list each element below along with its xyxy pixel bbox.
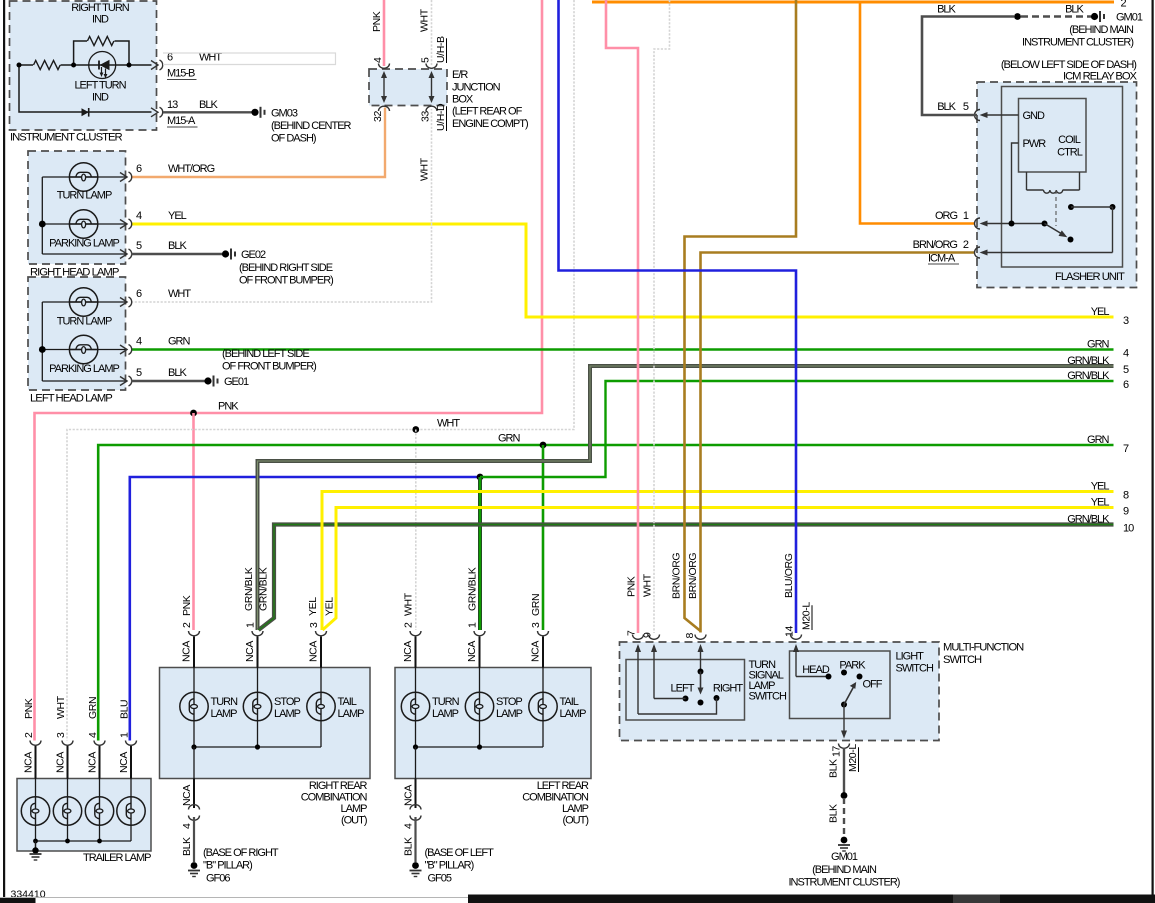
svg-text:GRN/BLK: GRN/BLK — [467, 567, 479, 611]
ICM relay box — [977, 82, 1137, 288]
svg-text:PARKING LAMP: PARKING LAMP — [49, 238, 119, 250]
svg-text:WHT/ORG: WHT/ORG — [168, 163, 215, 175]
left rear combination lamp box — [395, 668, 591, 779]
wire WHT into E/R pin 5 — [431, 0, 433, 66]
svg-text:4: 4 — [87, 732, 99, 738]
svg-text:TURN LAMP: TURN LAMP — [57, 190, 112, 202]
svg-text:5: 5 — [420, 57, 432, 63]
svg-text:GE02: GE02 — [241, 249, 266, 261]
svg-text:1: 1 — [963, 210, 969, 222]
svg-text:YEL: YEL — [324, 597, 336, 616]
svg-text:10: 10 — [1123, 522, 1134, 534]
svg-text:JUNCTION: JUNCTION — [452, 82, 501, 94]
wire ORG to flasher pin 1 — [860, 2, 974, 224]
E/R junction box — [369, 69, 447, 106]
svg-text:CTRL: CTRL — [1057, 147, 1083, 159]
svg-text:TURN: TURN — [211, 696, 239, 708]
svg-text:8: 8 — [684, 633, 696, 639]
flasher component box — [1019, 99, 1087, 173]
MFS pin 17 connector — [839, 744, 850, 749]
svg-text:(BEHIND RIGHT SIDE: (BEHIND RIGHT SIDE — [239, 262, 333, 274]
svg-text:(BASE OF RIGHT: (BASE OF RIGHT — [203, 847, 279, 859]
svg-text:GF06: GF06 — [206, 873, 230, 885]
bulb LHL turn lamp — [69, 288, 97, 316]
svg-text:GRN/BLK: GRN/BLK — [1067, 514, 1110, 526]
svg-text:GRN: GRN — [530, 594, 542, 616]
svg-text:WHT: WHT — [642, 573, 654, 597]
svg-text:INSTRUMENT CLUSTER): INSTRUMENT CLUSTER) — [1022, 37, 1133, 49]
svg-text:1: 1 — [467, 622, 479, 628]
svg-text:GRN: GRN — [87, 697, 99, 719]
svg-text:2: 2 — [181, 622, 193, 628]
trailer pin 3 connector — [62, 741, 73, 746]
svg-text:2: 2 — [403, 622, 415, 628]
relay actuation dashed line — [1055, 190, 1057, 226]
svg-text:GRN: GRN — [168, 336, 191, 348]
svg-text:GRN: GRN — [498, 433, 521, 445]
ground GM03 — [251, 109, 258, 116]
svg-text:TAIL: TAIL — [338, 696, 357, 708]
right head lamp box — [28, 151, 126, 264]
svg-text:IND: IND — [92, 14, 109, 26]
multi-function switch box — [620, 642, 940, 741]
trailer pin 4 connector — [94, 741, 105, 746]
junction dots cluster — [17, 63, 22, 68]
svg-text:YEL: YEL — [1091, 497, 1110, 509]
wire PNK to MFS pin 7 — [606, 0, 638, 633]
svg-text:BLK: BLK — [181, 837, 193, 856]
svg-text:PARK: PARK — [839, 660, 866, 672]
svg-text:NCA: NCA — [55, 752, 67, 773]
flasher pin 5 bracket — [975, 110, 981, 121]
svg-text:6: 6 — [1123, 379, 1129, 391]
LRC bulb wires — [415, 668, 417, 693]
svg-text:BRN/ORG: BRN/ORG — [687, 553, 699, 599]
svg-text:INSTRUMENT CLUSTER: INSTRUMENT CLUSTER — [10, 132, 123, 144]
wire BRN/ORG B to flasher pin 2 — [701, 253, 975, 633]
bulb LHL parking lamp — [69, 335, 97, 363]
svg-text:TRAILER LAMP: TRAILER LAMP — [83, 852, 151, 864]
diode left turn — [82, 108, 89, 116]
svg-text:ENGINE COMPT): ENGINE COMPT) — [452, 118, 528, 130]
svg-text:BLU/ORG: BLU/ORG — [783, 553, 795, 598]
ground GM01 bottom — [841, 837, 848, 844]
svg-text:PNK: PNK — [181, 595, 193, 616]
svg-text:4: 4 — [403, 823, 415, 829]
flasher pin 1 wire and relay switch — [983, 223, 1045, 225]
relay upper contact — [1068, 204, 1074, 210]
ground trailer — [35, 841, 37, 849]
svg-text:M20-L: M20-L — [801, 602, 813, 630]
MFS pin 7 connector — [633, 635, 644, 640]
bulb RHL parking lamp — [69, 210, 97, 238]
svg-text:7: 7 — [626, 630, 638, 636]
svg-text:7: 7 — [1123, 443, 1129, 455]
svg-text:ICM RELAY BOX: ICM RELAY BOX — [1063, 71, 1138, 83]
svg-text:BLK: BLK — [937, 101, 956, 113]
bulb RRC turn lamp — [180, 692, 208, 720]
svg-text:8: 8 — [1123, 489, 1129, 501]
LRC bottom pin 4 connector — [415, 779, 417, 809]
svg-text:PNK: PNK — [626, 576, 638, 597]
svg-text:RIGHT: RIGHT — [713, 683, 744, 695]
wire GRN bus 7 — [98, 445, 1113, 741]
connector LHL pin 5 — [120, 377, 127, 386]
svg-text:4: 4 — [372, 57, 384, 63]
wire YEL bus 3 — [131, 224, 1114, 317]
bulb RRC tail lamp — [307, 692, 335, 720]
svg-text:(OUT): (OUT) — [562, 815, 588, 827]
connector RHL pin 4 — [120, 220, 127, 229]
svg-text:INSTRUMENT CLUSTER): INSTRUMENT CLUSTER) — [789, 877, 900, 889]
svg-text:GRN: GRN — [1087, 434, 1110, 446]
svg-text:M20-L: M20-L — [847, 744, 859, 772]
svg-text:9: 9 — [1123, 505, 1129, 517]
bulb trailer 4 — [117, 797, 145, 825]
svg-text:U/H-D: U/H-D — [435, 103, 447, 131]
wire GRN/BLK bus 10 — [259, 525, 1114, 631]
wire YEL bus 8 — [322, 492, 1114, 631]
svg-text:SWITCH: SWITCH — [749, 691, 787, 703]
connector LHL pin 4 — [120, 345, 127, 354]
svg-text:BLK: BLK — [403, 837, 415, 856]
relay coil — [1026, 172, 1028, 190]
RRC pin 3 connector — [316, 631, 327, 636]
flasher pin 2 wire — [983, 252, 1113, 254]
bulb LRC stop lamp — [465, 692, 493, 720]
svg-text:4: 4 — [181, 823, 193, 829]
svg-text:LAMP: LAMP — [562, 803, 589, 815]
LRC pin 3 connector — [538, 631, 549, 636]
orange bus wire 2 — [592, 1, 1114, 4]
svg-text:BLK: BLK — [828, 804, 840, 823]
svg-text:OF DASH): OF DASH) — [271, 133, 316, 145]
svg-text:GF05: GF05 — [428, 873, 452, 885]
svg-text:IND: IND — [92, 92, 109, 104]
wire BLK pin 17 — [843, 748, 845, 794]
instrument cluster box — [10, 1, 157, 130]
svg-text:WHT: WHT — [168, 288, 191, 300]
svg-text:NCA: NCA — [181, 785, 193, 806]
ground GM01 top — [1091, 13, 1098, 20]
svg-text:32: 32 — [372, 111, 384, 122]
connector pin 13 M15-A — [151, 108, 158, 117]
wire PNK branch to right rear pin 2 — [192, 413, 195, 630]
LHL internal wires — [41, 302, 43, 381]
svg-text:HEAD: HEAD — [802, 664, 830, 676]
svg-text:NCA: NCA — [87, 752, 99, 773]
svg-text:STOP: STOP — [496, 696, 522, 708]
wire BLU trailer — [130, 477, 480, 741]
RRC bulb wires — [193, 668, 195, 693]
svg-text:M15-A: M15-A — [167, 115, 196, 127]
flasher unit box — [1002, 87, 1123, 268]
junction PNK — [190, 410, 197, 417]
svg-text:PNK: PNK — [23, 698, 35, 719]
svg-text:WHT: WHT — [55, 695, 67, 719]
svg-text:4: 4 — [1123, 347, 1129, 359]
svg-text:GRN/BLK: GRN/BLK — [258, 567, 270, 611]
wire GRN bus 4 — [131, 348, 1114, 351]
svg-text:U/H-B: U/H-B — [435, 36, 447, 63]
cluster wires — [19, 64, 152, 66]
wire PNK into E/R pin 4 — [383, 0, 386, 66]
connector RHL pin 6 — [120, 173, 127, 182]
svg-text:WHT: WHT — [419, 157, 431, 181]
svg-text:YEL: YEL — [1091, 481, 1110, 493]
connector LHL pin 6 — [120, 298, 127, 307]
svg-text:YEL: YEL — [1091, 306, 1110, 318]
junction GRN — [540, 442, 547, 449]
ground GE01 — [204, 377, 211, 384]
junction BLK — [1014, 13, 1021, 20]
svg-text:(BEHIND LEFT SIDE: (BEHIND LEFT SIDE — [222, 348, 309, 360]
svg-text:5: 5 — [136, 367, 142, 379]
wire GRN/BLK bus 6 — [480, 381, 1114, 477]
resistor R-bypass — [87, 35, 115, 47]
svg-text:E/R: E/R — [452, 69, 468, 81]
light switch output wire — [843, 705, 845, 735]
svg-text:GRN/BLK: GRN/BLK — [1067, 370, 1110, 382]
svg-text:YEL: YEL — [168, 210, 187, 222]
svg-text:YEL: YEL — [307, 597, 319, 616]
wire WHT vertical to trailer/left rear — [67, 0, 574, 741]
wire WHT/ORG to E/R pin 32 — [131, 108, 385, 178]
svg-text:17: 17 — [831, 746, 843, 757]
bulb trailer 1 — [21, 797, 49, 825]
svg-text:3: 3 — [308, 622, 320, 628]
svg-text:3: 3 — [55, 732, 67, 738]
ground GF06 — [191, 862, 198, 869]
svg-text:LEFT TURN: LEFT TURN — [74, 80, 126, 92]
svg-text:SWITCH: SWITCH — [896, 663, 934, 675]
svg-text:4: 4 — [136, 336, 142, 348]
svg-text:NCA: NCA — [23, 752, 35, 773]
svg-text:PNK: PNK — [218, 401, 239, 413]
svg-text:FLASHER UNIT: FLASHER UNIT — [1055, 271, 1125, 283]
E/R pin 4 connector — [379, 64, 390, 69]
wire BLK flasher to GM01 — [922, 17, 1014, 116]
LRC pin 1 connector — [474, 631, 485, 636]
wire BLU/ORG to MFS pin 14 — [559, 0, 797, 633]
svg-text:LAMP: LAMP — [274, 708, 301, 720]
svg-text:BLK: BLK — [937, 4, 956, 16]
svg-text:14: 14 — [784, 626, 796, 637]
svg-text:GND: GND — [1023, 110, 1046, 122]
svg-text:GM01: GM01 — [831, 851, 858, 863]
wire GRN branch to left rear pin 3 — [542, 445, 545, 630]
svg-text:GE01: GE01 — [224, 376, 249, 388]
svg-text:LAMP: LAMP — [432, 708, 459, 720]
svg-text:3: 3 — [530, 622, 542, 628]
turn signal lamp switch box — [626, 660, 745, 721]
bulb RHL turn lamp — [69, 163, 97, 191]
connector RHL pin 5 — [120, 250, 127, 259]
svg-text:1: 1 — [119, 732, 131, 738]
svg-text:WHT: WHT — [419, 8, 431, 32]
svg-text:COMBINATION: COMBINATION — [522, 792, 589, 804]
svg-text:5: 5 — [1123, 364, 1129, 376]
svg-text:LAMP: LAMP — [341, 803, 368, 815]
bulb LRC turn lamp — [401, 692, 429, 720]
svg-text:(OUT): (OUT) — [341, 815, 367, 827]
svg-text:2: 2 — [963, 239, 969, 251]
light switch internals — [795, 646, 797, 677]
light switch box — [790, 651, 891, 719]
bulb RRC stop lamp — [243, 692, 271, 720]
svg-text:"B" PILLAR): "B" PILLAR) — [203, 860, 252, 872]
svg-text:(BEHIND MAIN: (BEHIND MAIN — [1069, 24, 1134, 36]
svg-text:LEFT REAR: LEFT REAR — [537, 780, 589, 792]
turn signal switch internals — [637, 646, 639, 714]
RRC bottom pin 4 connector — [193, 779, 195, 809]
LED turn indicator — [89, 52, 116, 79]
svg-text:BOX: BOX — [452, 94, 474, 106]
svg-text:LAMP: LAMP — [338, 708, 365, 720]
bulb trailer 3 — [85, 797, 113, 825]
flasher GND wire — [983, 114, 1019, 116]
svg-text:RIGHT REAR: RIGHT REAR — [309, 780, 368, 792]
MFS pin 8 connector — [695, 635, 706, 640]
junction BLU-GRN — [477, 474, 484, 481]
svg-text:(BASE OF LEFT: (BASE OF LEFT — [425, 847, 495, 859]
svg-text:TAIL: TAIL — [560, 696, 579, 708]
svg-text:LEFT: LEFT — [671, 683, 695, 695]
label box WHT — [163, 53, 336, 65]
svg-text:BRN/ORG: BRN/ORG — [913, 239, 958, 251]
svg-text:LAMP: LAMP — [496, 708, 523, 720]
E/R pass-through arrows — [383, 73, 385, 101]
svg-text:OFF: OFF — [863, 679, 883, 691]
junction WHT — [412, 426, 419, 433]
svg-text:BLK: BLK — [168, 240, 187, 252]
svg-text:GM01: GM01 — [1116, 12, 1143, 24]
trailer bulb wires — [35, 779, 37, 798]
svg-text:PNK: PNK — [371, 11, 383, 32]
svg-text:(LEFT REAR OF: (LEFT REAR OF — [452, 106, 523, 118]
svg-text:NCA: NCA — [403, 785, 415, 806]
wire BLK to GE01 — [131, 380, 205, 382]
svg-text:COIL: COIL — [1058, 134, 1081, 146]
svg-text:6: 6 — [136, 288, 142, 300]
flasher PWR wire — [1012, 143, 1019, 224]
svg-text:TURN: TURN — [432, 696, 460, 708]
svg-text:LAMP: LAMP — [211, 708, 238, 720]
bulb trailer 2 — [53, 797, 81, 825]
svg-text:PARKING LAMP: PARKING LAMP — [49, 363, 119, 375]
wire BLK dashed GM01 — [843, 798, 845, 837]
wire WHT to MFS pin 9 — [654, 0, 670, 633]
wire WHT branch to left rear pin 2 — [415, 430, 417, 631]
svg-text:1: 1 — [245, 622, 257, 628]
svg-text:LAMP: LAMP — [560, 708, 587, 720]
svg-text:GRN/BLK: GRN/BLK — [243, 567, 255, 611]
svg-text:SWITCH: SWITCH — [943, 654, 982, 666]
svg-text:BLK: BLK — [199, 99, 218, 111]
right rear combination lamp box — [160, 668, 371, 779]
E/R pin 33 connector — [426, 106, 437, 111]
MFS pin 9 connector — [649, 635, 660, 640]
MFS pin 14 connector — [791, 635, 802, 640]
svg-text:WHT: WHT — [403, 592, 415, 616]
svg-text:5: 5 — [963, 101, 969, 113]
svg-text:NCA: NCA — [118, 752, 130, 773]
svg-text:"B" PILLAR): "B" PILLAR) — [425, 860, 474, 872]
svg-text:OF FRONT BUMPER): OF FRONT BUMPER) — [239, 275, 333, 287]
svg-text:LEFT HEAD LAMP: LEFT HEAD LAMP — [30, 393, 112, 405]
svg-text:COMBINATION: COMBINATION — [301, 792, 368, 804]
left head lamp box — [28, 277, 126, 390]
junction BLK GM01 — [841, 792, 848, 799]
svg-text:13: 13 — [167, 99, 178, 111]
svg-text:PWR: PWR — [1023, 138, 1047, 150]
ground GE02 — [222, 250, 229, 257]
trailer pin 1 connector — [126, 741, 137, 746]
svg-text:ICM-A: ICM-A — [928, 253, 956, 265]
bulb LRC tail lamp — [529, 692, 557, 720]
svg-text:(BEHIND CENTER: (BEHIND CENTER — [271, 120, 352, 132]
svg-text:M15-B: M15-B — [167, 68, 195, 80]
resistor R-series — [33, 59, 61, 71]
svg-text:(BEHIND MAIN: (BEHIND MAIN — [812, 864, 877, 876]
trailer pin 2 connector — [30, 741, 41, 746]
svg-text:2: 2 — [23, 732, 35, 738]
wire BLK M15-A — [163, 111, 252, 113]
svg-text:5: 5 — [136, 240, 142, 252]
wire BRN/ORG A to MFS pin 8 — [685, 0, 797, 631]
svg-text:4: 4 — [136, 210, 142, 222]
trailer lamp box — [17, 779, 151, 852]
RRC pin 2 connector — [189, 631, 200, 636]
svg-text:NCA: NCA — [308, 641, 320, 662]
svg-text:33: 33 — [420, 111, 432, 122]
svg-text:GRN: GRN — [1087, 339, 1110, 351]
svg-text:2: 2 — [1121, 0, 1127, 10]
svg-text:GM03: GM03 — [271, 107, 298, 119]
svg-text:WHT: WHT — [437, 418, 460, 430]
connector pin 6 M15-B — [151, 61, 158, 70]
svg-text:BLK: BLK — [168, 367, 187, 379]
svg-text:NCA: NCA — [466, 641, 478, 662]
svg-text:GRN/BLK: GRN/BLK — [1067, 355, 1110, 367]
RHL internal wires — [41, 177, 43, 254]
svg-text:NCA: NCA — [244, 641, 256, 662]
svg-text:MULTI-FUNCTION: MULTI-FUNCTION — [943, 642, 1024, 654]
svg-text:OF FRONT BUMPER): OF FRONT BUMPER) — [222, 361, 316, 373]
svg-text:9: 9 — [642, 632, 654, 638]
svg-text:LIGHT: LIGHT — [896, 651, 925, 663]
wire WHT to E/R pin 33 — [131, 109, 432, 302]
svg-text:BLU: BLU — [119, 700, 131, 719]
svg-text:NCA: NCA — [530, 641, 542, 662]
svg-text:BLK: BLK — [828, 759, 840, 778]
svg-text:BLK: BLK — [1065, 4, 1084, 16]
svg-text:(BELOW LEFT SIDE OF DASH): (BELOW LEFT SIDE OF DASH) — [1001, 59, 1137, 71]
wire GRN/BLK branch to left rear pin 1 — [478, 477, 482, 630]
svg-text:6: 6 — [136, 163, 142, 175]
RRC pin 1 connector — [252, 631, 263, 636]
ground GF05 — [412, 862, 419, 869]
wire GRN/BLK dark bus 5 — [258, 366, 1114, 630]
svg-text:BRN/ORG: BRN/ORG — [671, 553, 683, 599]
svg-text:NCA: NCA — [402, 641, 414, 662]
E/R pin 5 connector — [426, 64, 437, 69]
svg-text:STOP: STOP — [274, 696, 300, 708]
LRC pin 2 connector — [410, 631, 421, 636]
wire BLK to GE02 — [131, 253, 222, 255]
E/R pin 32 connector — [379, 106, 390, 111]
svg-text:3: 3 — [1123, 315, 1129, 327]
